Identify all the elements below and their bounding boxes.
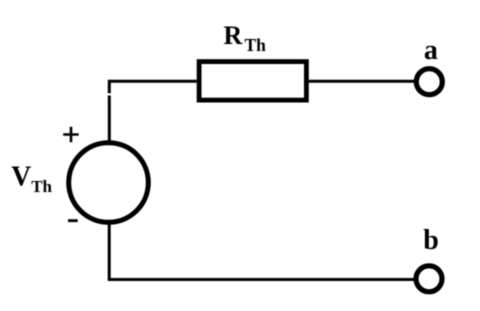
svg-text:R: R — [224, 21, 243, 50]
svg-text:b: b — [423, 225, 439, 256]
svg-text:V: V — [11, 160, 31, 192]
svg-text:a: a — [424, 35, 438, 66]
svg-text:Th: Th — [31, 177, 52, 196]
svg-text:Th: Th — [245, 35, 267, 55]
